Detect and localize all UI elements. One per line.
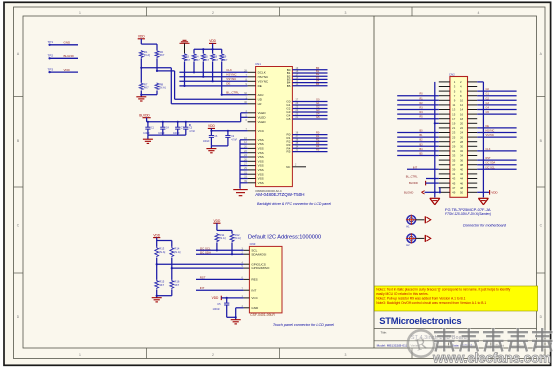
svg-text:TP2: TP2 bbox=[48, 54, 54, 58]
svg-text:BLVDD: BLVDD bbox=[409, 181, 418, 185]
svg-text:CN2: CN2 bbox=[449, 72, 455, 76]
svg-text:ADJ: ADJ bbox=[258, 93, 264, 97]
svg-text:4.7uF: 4.7uF bbox=[189, 131, 195, 133]
svg-text:AM-0480EJTZQW-T50H: AM-0480EJTZQW-T50H bbox=[255, 192, 304, 197]
svg-text:GND: GND bbox=[64, 41, 72, 45]
svg-text:RES: RES bbox=[251, 278, 257, 282]
svg-text:G3: G3 bbox=[316, 108, 320, 112]
svg-text:23: 23 bbox=[452, 131, 456, 135]
svg-text:R0: R0 bbox=[316, 131, 320, 135]
svg-text:32: 32 bbox=[460, 149, 464, 153]
svg-text:DE: DE bbox=[486, 125, 490, 128]
svg-text:TP3: TP3 bbox=[48, 68, 54, 72]
svg-text:4K7: 4K7 bbox=[159, 283, 164, 287]
svg-text:G5: G5 bbox=[316, 115, 320, 119]
svg-text:41: 41 bbox=[452, 172, 456, 176]
svg-text:4K7: 4K7 bbox=[223, 59, 228, 62]
svg-text:40: 40 bbox=[460, 168, 464, 172]
svg-text:48: 48 bbox=[460, 186, 464, 190]
svg-text:11: 11 bbox=[452, 103, 455, 107]
svg-text:VDD: VDD bbox=[209, 39, 216, 43]
svg-text:CLK: CLK bbox=[226, 68, 232, 72]
svg-text:BLVDD: BLVDD bbox=[139, 114, 150, 118]
svg-text:C5: C5 bbox=[217, 302, 221, 306]
svg-text:GPIO2/MISO: GPIO2/MISO bbox=[251, 266, 270, 270]
svg-text:26: 26 bbox=[460, 135, 464, 139]
svg-text:34: 34 bbox=[460, 154, 464, 158]
svg-text:HSYNC: HSYNC bbox=[226, 73, 236, 77]
svg-text:4: 4 bbox=[478, 11, 480, 15]
svg-text:4.7uF: 4.7uF bbox=[231, 140, 237, 142]
svg-text:27: 27 bbox=[452, 140, 456, 144]
svg-text:CLK: CLK bbox=[486, 148, 491, 151]
svg-text:INT: INT bbox=[251, 288, 256, 292]
svg-text:R1: R1 bbox=[316, 134, 320, 138]
svg-text:easily MCU IO related in this: easily MCU IO related in this series. bbox=[376, 292, 428, 296]
svg-text:4K7: 4K7 bbox=[186, 59, 191, 62]
svg-text:TP1: TP1 bbox=[48, 40, 54, 44]
svg-text:HSYNC: HSYNC bbox=[258, 75, 269, 79]
svg-text:SDA/MOSI: SDA/MOSI bbox=[251, 252, 266, 256]
svg-text:36: 36 bbox=[460, 158, 464, 162]
svg-text:B5: B5 bbox=[316, 82, 320, 86]
svg-text:47: 47 bbox=[452, 186, 456, 190]
svg-text:1: 1 bbox=[79, 353, 81, 357]
svg-text:28: 28 bbox=[460, 140, 464, 144]
svg-text:Backlight driver & FFC connect: Backlight driver & FFC connector for LCD… bbox=[257, 202, 331, 206]
svg-text:BLGND: BLGND bbox=[64, 54, 75, 58]
svg-text:29: 29 bbox=[452, 145, 456, 149]
svg-text:Note1: Text in italic placed i: Note1: Text in italic placed in curly br… bbox=[376, 288, 510, 292]
svg-text:VDD: VDD bbox=[138, 35, 145, 39]
svg-text:Connector for motherboard: Connector for motherboard bbox=[463, 223, 507, 227]
svg-text:24: 24 bbox=[460, 131, 464, 135]
svg-text:38: 38 bbox=[460, 163, 464, 167]
svg-text:4K7: 4K7 bbox=[195, 59, 200, 62]
svg-text:DE: DE bbox=[226, 82, 230, 86]
svg-text:RST: RST bbox=[486, 157, 491, 160]
svg-text:25: 25 bbox=[452, 135, 456, 139]
svg-text:VDD: VDD bbox=[64, 68, 71, 72]
svg-text:VDD: VDD bbox=[491, 191, 498, 195]
svg-text:35: 35 bbox=[452, 158, 456, 162]
svg-text:12: 12 bbox=[460, 103, 464, 107]
svg-text:4K7: 4K7 bbox=[174, 283, 179, 287]
svg-text:DCLK: DCLK bbox=[258, 70, 266, 74]
svg-text:4K7: 4K7 bbox=[214, 59, 219, 62]
svg-text:15: 15 bbox=[452, 112, 456, 116]
svg-text:100nF: 100nF bbox=[213, 307, 221, 311]
svg-text:I2C SDA: I2C SDA bbox=[486, 162, 496, 165]
svg-text:4K7: 4K7 bbox=[205, 59, 210, 62]
svg-text:VDD: VDD bbox=[214, 219, 221, 223]
svg-text:VDD: VDD bbox=[153, 233, 160, 237]
svg-text:37: 37 bbox=[452, 163, 456, 167]
svg-text:2: 2 bbox=[212, 353, 214, 357]
svg-text:R5: R5 bbox=[287, 150, 291, 154]
svg-text:100nF: 100nF bbox=[203, 141, 210, 143]
svg-text:G0: G0 bbox=[316, 98, 320, 102]
svg-text:VDD: VDD bbox=[208, 124, 215, 128]
svg-text:13: 13 bbox=[452, 108, 456, 112]
svg-text:H2: H2 bbox=[406, 243, 410, 247]
svg-text:VSYNC: VSYNC bbox=[486, 134, 495, 137]
svg-text:VSYNC: VSYNC bbox=[258, 79, 269, 83]
svg-text:R3: R3 bbox=[316, 141, 320, 145]
svg-text:[N.A]: [N.A] bbox=[174, 250, 180, 254]
svg-text:Title:: Title: bbox=[381, 331, 388, 335]
svg-text:Model: MB1315(B-01): Model: MB1315(B-01) bbox=[377, 343, 407, 347]
svg-text:33: 33 bbox=[452, 154, 456, 158]
svg-text:14: 14 bbox=[460, 108, 464, 112]
svg-text:[N.A]: [N.A] bbox=[160, 86, 166, 90]
svg-text:FTSH-125-03N-F-DV-K(Samtec): FTSH-125-03N-F-DV-K(Samtec) bbox=[445, 212, 491, 216]
svg-text:Touch panel connector for LCD: Touch panel connector for LCD panel bbox=[273, 323, 334, 327]
svg-text:G5: G5 bbox=[286, 117, 290, 121]
svg-text:CSF-0401-09LR: CSF-0401-09LR bbox=[250, 313, 275, 317]
svg-text:31: 31 bbox=[452, 149, 456, 153]
svg-text:HSYNC: HSYNC bbox=[486, 130, 495, 133]
svg-text:49: 49 bbox=[452, 191, 456, 195]
svg-text:STMicroelectronics: STMicroelectronics bbox=[379, 315, 461, 326]
svg-text:50: 50 bbox=[460, 191, 464, 195]
svg-text:VLED: VLED bbox=[258, 120, 267, 124]
svg-text:www.elecfans.com: www.elecfans.com bbox=[432, 351, 551, 366]
svg-text:CN1: CN1 bbox=[255, 62, 261, 66]
svg-text:4K7: 4K7 bbox=[160, 53, 165, 57]
svg-text:VCC: VCC bbox=[251, 296, 258, 300]
svg-text:NC: NC bbox=[286, 165, 290, 169]
svg-text:46: 46 bbox=[460, 181, 464, 185]
svg-text:DE: DE bbox=[258, 84, 262, 88]
svg-text:44: 44 bbox=[460, 177, 464, 181]
svg-text:Note3: Backlight On/Off contro: Note3: Backlight On/Off control circuit … bbox=[376, 301, 486, 305]
svg-text:45: 45 bbox=[452, 181, 456, 185]
svg-text:3: 3 bbox=[345, 11, 347, 15]
svg-text:Note2: Pull-up resistor R9 was: Note2: Pull-up resistor R9 was added fro… bbox=[376, 297, 465, 301]
svg-text:4K7: 4K7 bbox=[144, 86, 149, 90]
svg-text:VDD: VDD bbox=[212, 296, 219, 300]
svg-text:VLED: VLED bbox=[258, 115, 267, 119]
svg-text:R5: R5 bbox=[316, 148, 320, 152]
svg-text:39: 39 bbox=[452, 168, 456, 172]
svg-text:B5: B5 bbox=[287, 84, 291, 88]
svg-text:GND: GND bbox=[251, 306, 259, 310]
svg-text:G4: G4 bbox=[316, 112, 320, 116]
svg-text:VSS: VSS bbox=[258, 181, 264, 185]
svg-text:Default I2C Address:1000000: Default I2C Address:1000000 bbox=[248, 234, 321, 240]
svg-text:VCC: VCC bbox=[258, 129, 265, 133]
svg-text:3: 3 bbox=[345, 353, 347, 357]
svg-text:[N.A]: [N.A] bbox=[235, 236, 241, 240]
svg-text:[N.A]: [N.A] bbox=[144, 53, 150, 57]
svg-text:BL_CTRL: BL_CTRL bbox=[226, 91, 239, 95]
svg-text:BLGND: BLGND bbox=[404, 190, 413, 194]
svg-text:43: 43 bbox=[452, 177, 456, 181]
svg-text:BL_CTRL: BL_CTRL bbox=[406, 175, 418, 179]
svg-text:[N.A]: [N.A] bbox=[159, 250, 165, 254]
svg-text:R2: R2 bbox=[316, 137, 320, 141]
svg-text:G2: G2 bbox=[316, 105, 320, 109]
svg-text:G1: G1 bbox=[316, 101, 320, 105]
svg-text:17: 17 bbox=[452, 117, 456, 121]
svg-text:20: 20 bbox=[460, 122, 464, 126]
svg-text:21: 21 bbox=[452, 126, 456, 130]
svg-text:30: 30 bbox=[460, 145, 464, 149]
svg-text:42: 42 bbox=[460, 172, 464, 176]
svg-text:VLED: VLED bbox=[258, 111, 267, 115]
svg-text:I2C SCL: I2C SCL bbox=[486, 166, 496, 169]
svg-text:18: 18 bbox=[460, 117, 464, 121]
svg-text:19: 19 bbox=[452, 122, 456, 126]
svg-text:2: 2 bbox=[212, 11, 214, 15]
svg-text:VSYNC: VSYNC bbox=[226, 77, 236, 81]
svg-text:CN3: CN3 bbox=[250, 242, 256, 246]
svg-text:10: 10 bbox=[460, 99, 464, 103]
svg-text:1: 1 bbox=[79, 11, 81, 15]
svg-text:[N.A]: [N.A] bbox=[220, 236, 226, 240]
svg-text:H1: H1 bbox=[406, 225, 410, 229]
svg-text:R4: R4 bbox=[316, 144, 320, 148]
svg-text:16: 16 bbox=[460, 112, 464, 116]
svg-text:22: 22 bbox=[460, 126, 464, 130]
